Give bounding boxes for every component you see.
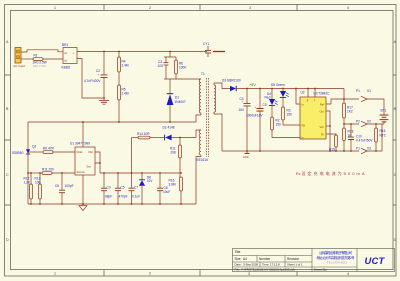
wire aux to transformer	[195, 130, 197, 138]
wire U1 drain up	[82, 122, 84, 147]
svg-text:Number: Number	[259, 257, 271, 261]
svg-text:150: 150	[287, 113, 293, 117]
svg-text:2.4M: 2.4M	[122, 64, 129, 68]
resistor R13	[35, 172, 42, 204]
svg-text:R16: R16	[380, 129, 386, 133]
svg-text:AC Input: AC Input	[13, 64, 25, 68]
svg-text:150: 150	[276, 123, 282, 127]
wire R10 to U1	[52, 172, 75, 174]
wire +5V to U2 pin1	[296, 89, 300, 105]
svg-text:Title: Title	[235, 250, 241, 254]
svg-text:Out: Out	[320, 110, 324, 114]
frame tick bottom right	[296, 272, 298, 277]
svg-text:470pF: 470pF	[119, 194, 128, 198]
transformer T1	[196, 72, 230, 204]
capacitor C7	[129, 138, 141, 205]
core	[207, 78, 209, 157]
wire R3 to U2	[283, 120, 300, 125]
svg-text:C: C	[394, 173, 397, 177]
svg-text:Vcc: Vcc	[320, 125, 325, 129]
zone letters right	[394, 40, 397, 242]
svg-text:1N4007: 1N4007	[175, 100, 186, 104]
annotation red text	[296, 170, 365, 176]
svg-text:Revision: Revision	[287, 257, 299, 261]
svg-text:D5 Green: D5 Green	[271, 83, 285, 87]
bridge rectifier BR1	[62, 43, 78, 69]
svg-text:C2: C2	[96, 69, 100, 73]
svg-text:Red: Red	[265, 96, 271, 100]
diode D3	[222, 79, 241, 92]
resistor R9	[43, 147, 55, 154]
svg-text:1R0 2.5W: 1R0 2.5W	[33, 64, 47, 68]
IC U2 UCT3842	[300, 90, 330, 139]
svg-text:11V: 11V	[147, 179, 153, 183]
svg-text:16V: 16V	[239, 108, 246, 112]
svg-text:103: 103	[158, 64, 164, 68]
svg-text:U1 3947T3N9: U1 3947T3N9	[70, 141, 90, 145]
svg-text:10uF: 10uF	[163, 190, 170, 194]
junction dots top rail	[103, 51, 171, 53]
svg-text:100K: 100K	[179, 66, 187, 70]
svg-text:Drawn By:: Drawn By:	[314, 268, 328, 272]
svg-text:3: 3	[248, 272, 250, 276]
capacitor C10	[348, 124, 373, 151]
capacitor C4	[239, 89, 251, 152]
svg-text:C: C	[6, 173, 9, 177]
wire U2 ref pin up to P1 row	[326, 99, 359, 104]
bottom rail	[28, 203, 196, 205]
svg-text:1000uF16V: 1000uF16V	[246, 113, 263, 117]
svg-text:R15: R15	[329, 147, 335, 151]
svg-text:20E: 20E	[171, 150, 177, 154]
svg-text:3-Sep-2005: 3-Sep-2005	[243, 263, 258, 267]
svg-text:BT1: BT1	[381, 108, 387, 112]
svg-text:R1: R1	[34, 53, 38, 57]
capacitor C3b	[101, 173, 112, 204]
svg-text:UCT3842C: UCT3842C	[314, 92, 331, 96]
wire R9 to U1	[53, 151, 75, 153]
plug P2	[356, 120, 371, 127]
svg-text:Ref: Ref	[320, 103, 324, 107]
svg-text:NTC: NTC	[380, 133, 387, 137]
resistor R5	[118, 85, 129, 100]
svg-text:Drain: Drain	[77, 150, 84, 154]
svg-text:17:12:8: 17:12:8	[270, 263, 280, 267]
svg-text:C7: C7	[134, 185, 138, 189]
svg-text:C5: C5	[121, 185, 125, 189]
svg-text:0.1uF: 0.1uF	[132, 194, 140, 198]
+5V rail	[236, 88, 344, 90]
ground U1	[79, 203, 87, 211]
svg-text:C4: C4	[240, 97, 244, 101]
capacitor C8	[157, 173, 170, 204]
svg-text:TEL:0754-8211: TEL:0754-8211	[327, 260, 348, 264]
wire U1 source down	[82, 175, 84, 204]
svg-text:2.4M: 2.4M	[122, 92, 129, 96]
resistor R11b	[170, 138, 181, 174]
resistor R12	[24, 172, 33, 204]
svg-text:0.47uF/50V: 0.47uF/50V	[356, 139, 373, 143]
svg-text:FB: FB	[302, 124, 306, 128]
svg-text:D3 SBR2100: D3 SBR2100	[222, 79, 241, 83]
wire aux row	[132, 137, 139, 139]
vcc rail	[100, 172, 181, 174]
svg-text:Sen: Sen	[87, 164, 92, 168]
wire bridge negative to ground	[77, 59, 104, 99]
snubber bottom bar and wire to transformer	[164, 78, 196, 80]
wire P1 to battery	[367, 99, 384, 115]
svg-text:2: 2	[149, 272, 151, 276]
svg-text:D: D	[394, 238, 397, 242]
capacitor C2	[84, 52, 108, 99]
wire R4 to R5	[118, 72, 120, 85]
resistor R14	[137, 132, 150, 139]
secondary return rail	[222, 124, 382, 151]
svg-text:C3: C3	[107, 185, 111, 189]
plug P3	[356, 146, 371, 153]
wire U2 out pin column	[326, 111, 330, 151]
wire U2 vcc pin stub	[326, 125, 330, 127]
svg-text:Q2: Q2	[32, 145, 36, 149]
resistor R1	[33, 53, 47, 68]
IC U1	[70, 141, 95, 175]
capacitor C3 snubber	[158, 57, 169, 79]
svg-text:File:: File:	[235, 268, 241, 272]
junction dots left rail	[27, 151, 29, 174]
svg-text:R9 47R: R9 47R	[43, 147, 55, 151]
svg-text:Rx: Rx	[296, 172, 301, 176]
resistor R4	[118, 52, 129, 73]
resistor R17	[343, 103, 353, 118]
svg-text:68pF: 68pF	[105, 194, 112, 198]
primary winding	[199, 79, 201, 113]
svg-text:SS8550: SS8550	[12, 151, 24, 155]
junction dots drain net	[82, 121, 171, 123]
wire row to R10	[28, 172, 42, 174]
svg-text:C6: C6	[55, 184, 59, 188]
resistor R15	[326, 134, 337, 151]
frame zone ticks bottom	[104, 270, 200, 277]
thermistor R16 NTC	[375, 124, 387, 151]
svg-text:P1: P1	[356, 146, 360, 150]
svg-text:Rt: Rt	[321, 133, 324, 137]
svg-text:EE1616: EE1616	[197, 158, 209, 162]
svg-text:1.2K: 1.2K	[24, 180, 31, 184]
svg-text:R14 10R: R14 10R	[137, 132, 150, 136]
resistor R18	[343, 128, 354, 151]
diode D1	[167, 79, 186, 122]
capacitor C6	[55, 172, 74, 204]
power port GND secondary	[243, 150, 250, 159]
ground primary	[99, 97, 109, 104]
resistor R2	[271, 117, 281, 130]
svg-text:C5: C5	[263, 103, 267, 107]
company name block (chinese)	[317, 250, 355, 264]
svg-text:3.9M: 3.9M	[169, 182, 176, 186]
zone numbers bottom	[54, 272, 349, 276]
wire +5V rail corner down	[343, 89, 345, 104]
wire U1 right pins	[95, 152, 100, 173]
wire connector top to bridge	[21, 50, 63, 52]
connector J1	[15, 48, 21, 64]
svg-text:A4: A4	[243, 257, 247, 261]
wire row to R9	[28, 151, 43, 153]
capacitor C5	[246, 89, 267, 152]
junction dots +5V rail	[246, 88, 316, 90]
svg-text:3: 3	[249, 6, 251, 10]
svg-text:X1: X1	[367, 89, 371, 93]
svg-text:U2: U2	[301, 90, 305, 94]
capacitor CY1	[203, 42, 211, 57]
svg-text:KBBD: KBBD	[62, 66, 71, 70]
svg-text:Sheet 1 of 1: Sheet 1 of 1	[287, 263, 303, 267]
capacitor C5b	[115, 173, 128, 204]
svg-text:Size: Size	[235, 257, 241, 261]
svg-text:X3: X3	[367, 146, 371, 150]
LED D4	[265, 89, 278, 118]
frame zone ticks right	[393, 75, 396, 205]
svg-text:C8: C8	[164, 186, 168, 190]
wire R17 to P2 row	[343, 118, 345, 128]
resistor R3	[282, 107, 292, 120]
P2 row	[344, 123, 384, 125]
svg-text:GND: GND	[243, 155, 249, 159]
svg-text:-: -	[73, 59, 74, 62]
transistor Q2	[12, 145, 36, 155]
svg-text:1: 1	[54, 6, 56, 10]
secondary winding	[214, 85, 216, 112]
wire R2 to U2	[272, 130, 300, 138]
svg-text:X2: X2	[367, 120, 371, 124]
svg-text:100pF: 100pF	[65, 184, 74, 188]
svg-text:T1: T1	[201, 72, 205, 76]
wire R5 down to drain net	[118, 100, 120, 122]
svg-text:R11 200: R11 200	[42, 168, 54, 172]
wire connector bottom to R1	[21, 58, 33, 60]
svg-text:P1: P1	[356, 89, 360, 93]
svg-text:P2: P2	[356, 120, 360, 124]
svg-text:D2 4148: D2 4148	[163, 126, 175, 130]
wire stub right of CY1	[213, 51, 225, 53]
left rail	[27, 122, 29, 204]
svg-text:1K2: 1K2	[347, 110, 353, 114]
zone letters left	[6, 40, 9, 242]
svg-text:4: 4	[347, 272, 349, 276]
svg-text:4: 4	[347, 6, 349, 10]
svg-text:4.7uF/400V: 4.7uF/400V	[84, 79, 101, 83]
junction P1 row	[343, 98, 345, 100]
svg-text:Vdd: Vdd	[88, 150, 93, 154]
svg-text:10E: 10E	[35, 180, 41, 184]
drain net wire	[28, 115, 201, 122]
wire U2 top pins	[308, 89, 315, 98]
diode D2	[163, 126, 197, 141]
aux winding	[199, 130, 201, 155]
svg-text:2: 2	[149, 6, 151, 10]
plug P1	[356, 89, 371, 102]
svg-text:F:\PROTEL99SE MY DESIGN\pb353.: F:\PROTEL99SE MY DESIGN\pb353.ddb	[242, 268, 296, 272]
wire R1 to bridge	[43, 58, 63, 60]
frame zone ticks left	[5, 75, 11, 205]
snubber top bar	[164, 52, 176, 58]
svg-text:Time:: Time:	[262, 263, 269, 267]
svg-text:CY1: CY1	[203, 42, 209, 46]
svg-text:UCT: UCT	[365, 255, 386, 266]
battery BT1	[380, 108, 389, 124]
zener D6	[139, 173, 153, 204]
title block	[233, 249, 395, 272]
wire R14 to D2	[150, 137, 164, 139]
wire top DC rail	[77, 51, 207, 53]
svg-text:汕头高新区优特电子有限公司: 汕头高新区优特电子有限公司	[319, 250, 352, 255]
svg-text:D: D	[6, 238, 9, 242]
svg-text:Source: Source	[77, 170, 86, 174]
zone numbers top	[54, 6, 349, 10]
svg-text:+5V: +5V	[249, 83, 256, 87]
resistor R6 snubber	[175, 57, 188, 79]
svg-text:BR1: BR1	[62, 43, 68, 47]
resistor R16b	[169, 173, 183, 204]
svg-text:1: 1	[54, 272, 56, 276]
LED D5	[271, 83, 289, 107]
frame zone ticks top	[104, 5, 297, 11]
resistor R10	[42, 168, 54, 175]
svg-text:Date:: Date:	[235, 263, 242, 267]
svg-text:地址:汕头市高新区科技东路2号: 地址:汕头市高新区科技东路2号	[317, 255, 355, 260]
